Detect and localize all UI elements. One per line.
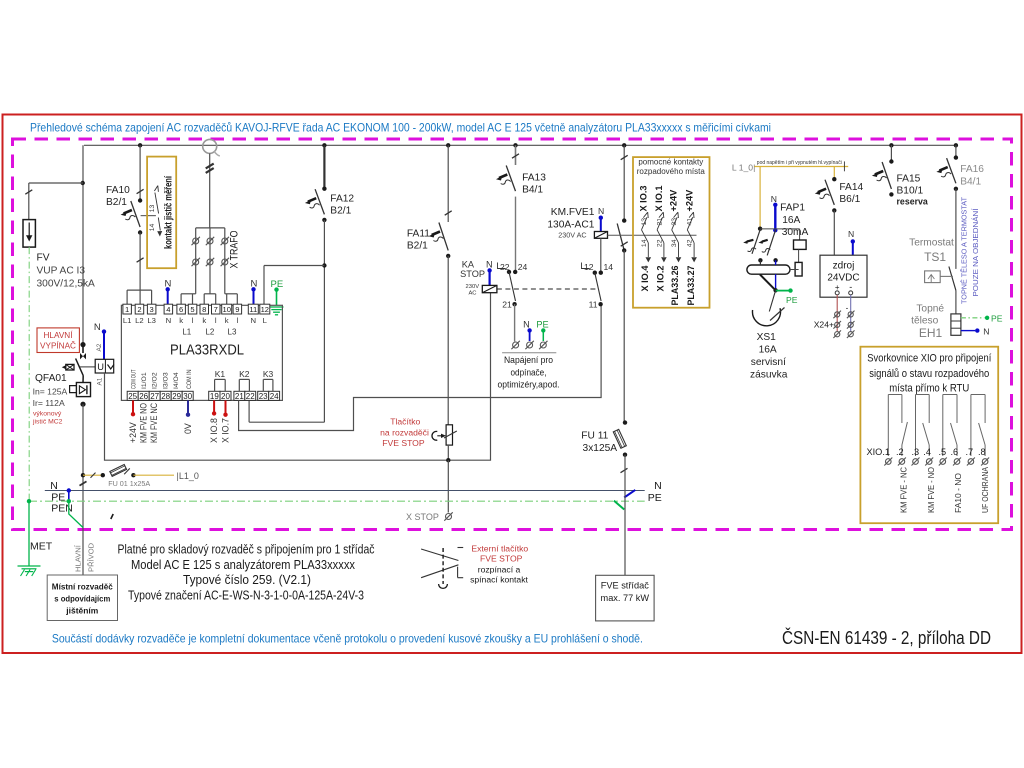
svg-text:k: k (179, 316, 183, 325)
svg-text:23: 23 (259, 392, 268, 401)
svg-text:PE: PE (991, 314, 1003, 324)
svg-text:FA10 - NO: FA10 - NO (954, 473, 963, 513)
svg-text:B6/1: B6/1 (839, 194, 860, 205)
svg-text:STOP: STOP (460, 269, 485, 279)
svg-text:Napájení pro: Napájení pro (504, 355, 553, 366)
svg-text:Externí tlačítko: Externí tlačítko (471, 543, 528, 553)
svg-text:L 1_0|: L 1_0| (732, 162, 755, 172)
svg-text:PE: PE (786, 295, 798, 305)
svg-text:.7: .7 (966, 447, 974, 457)
svg-text:K3: K3 (263, 369, 274, 379)
svg-text:B2/1: B2/1 (106, 197, 127, 208)
svg-text:X IO.2: X IO.2 (656, 266, 666, 292)
svg-text:s odpovídajícm: s odpovídajícm (54, 594, 110, 604)
svg-text:5: 5 (190, 305, 194, 314)
svg-text:FA10: FA10 (106, 185, 130, 196)
svg-text:X TRAFO: X TRAFO (229, 230, 241, 268)
svg-text:max. 77 kW: max. 77 kW (601, 593, 650, 603)
svg-text:3: 3 (150, 305, 154, 314)
svg-text:kontakt jistič měření: kontakt jistič měření (164, 175, 175, 249)
svg-text:24: 24 (270, 392, 279, 401)
svg-text:L3: L3 (147, 316, 156, 325)
svg-text:PLA33.27: PLA33.27 (686, 266, 696, 306)
svg-text:UF OCHRANA: UF OCHRANA (981, 467, 990, 513)
svg-text:PEN: PEN (51, 503, 73, 515)
svg-text:výkonový: výkonový (33, 411, 62, 418)
svg-text:A1: A1 (96, 377, 103, 385)
svg-text:L1: L1 (123, 316, 132, 325)
svg-text:11: 11 (589, 300, 598, 310)
svg-text:l: l (236, 316, 238, 325)
svg-text:X IO.8: X IO.8 (209, 418, 219, 443)
svg-text:Typové číslo 259. (V2.1): Typové číslo 259. (V2.1) (183, 573, 311, 587)
svg-text:24VDC: 24VDC (827, 273, 859, 284)
svg-text:PLA33.26: PLA33.26 (670, 266, 680, 306)
svg-text:N: N (598, 206, 604, 216)
svg-text:4: 4 (166, 305, 170, 314)
svg-text:FU 11: FU 11 (581, 431, 608, 442)
svg-text:Topné: Topné (916, 304, 944, 315)
svg-text:.4: .4 (923, 447, 931, 457)
svg-text:ČSN-EN 61439 - 2, příloha DD: ČSN-EN 61439 - 2, příloha DD (782, 627, 991, 648)
svg-text:|L1_0: |L1_0 (177, 471, 199, 481)
svg-text:FV: FV (37, 253, 50, 264)
svg-text:L1: L1 (182, 328, 191, 337)
svg-text:X IO.7: X IO.7 (221, 418, 231, 443)
svg-text:.8: .8 (978, 447, 986, 457)
svg-text:jištěním: jištěním (65, 606, 98, 616)
svg-text:41: 41 (687, 218, 694, 226)
svg-text:Typové značení AC-E-WS-N-3-1-0: Typové značení AC-E-WS-N-3-1-0-0A-125A-2… (128, 588, 364, 602)
svg-text:COM IN: COM IN (186, 369, 193, 389)
svg-text:Termostat: Termostat (909, 238, 954, 249)
svg-text:EH1: EH1 (919, 326, 943, 340)
svg-text:na rozvaděči: na rozvaděči (380, 427, 429, 437)
svg-text:16A: 16A (759, 344, 777, 355)
svg-text:X24+: X24+ (814, 320, 834, 330)
svg-text:XIO.1: XIO.1 (867, 447, 891, 457)
svg-text:.5: .5 (939, 447, 947, 457)
svg-text:Součástí dodávky rozvaděče je: Součástí dodávky rozvaděče je kompletní … (52, 633, 643, 646)
svg-text:těleso: těleso (911, 316, 939, 327)
svg-text:optimizéry,apod.: optimizéry,apod. (498, 380, 560, 391)
svg-text:FA15: FA15 (897, 174, 921, 185)
svg-text:19: 19 (210, 392, 219, 401)
svg-text:.3: .3 (912, 447, 920, 457)
svg-text:QFA01: QFA01 (35, 373, 67, 384)
svg-text:6: 6 (179, 305, 183, 314)
svg-text:FVE STOP: FVE STOP (382, 438, 425, 448)
svg-text:I2/O2: I2/O2 (151, 372, 158, 389)
svg-text:FU 01 1x25A: FU 01 1x25A (108, 479, 150, 488)
svg-text:27: 27 (150, 392, 159, 401)
svg-text:13: 13 (149, 205, 156, 213)
svg-text:PE: PE (536, 319, 548, 329)
svg-text:zdroj: zdroj (833, 260, 855, 271)
svg-text:A2: A2 (96, 343, 103, 351)
svg-text:FA16: FA16 (960, 164, 984, 175)
svg-text:L2: L2 (135, 316, 144, 325)
svg-text:odpínače,: odpínače, (511, 367, 547, 378)
svg-text:I3/O3: I3/O3 (162, 372, 169, 389)
svg-text:VUP AC I3: VUP AC I3 (37, 266, 86, 277)
svg-text:12: 12 (261, 305, 269, 314)
svg-text:N: N (486, 260, 493, 270)
svg-text:N: N (771, 194, 777, 204)
svg-text:21: 21 (502, 300, 512, 310)
svg-text:rozpadového místa: rozpadového místa (637, 167, 706, 176)
svg-text:FA12: FA12 (330, 194, 354, 205)
svg-text:X IO.4: X IO.4 (640, 265, 650, 292)
svg-text:8: 8 (202, 305, 206, 314)
svg-text:KA: KA (462, 260, 475, 270)
svg-text:14: 14 (149, 224, 156, 232)
svg-text:N: N (251, 316, 257, 325)
svg-text:20: 20 (221, 392, 230, 401)
svg-text:reserva: reserva (897, 197, 928, 207)
svg-text:PE: PE (648, 492, 662, 504)
svg-text:22: 22 (500, 262, 510, 272)
svg-text:VYPÍNAČ: VYPÍNAČ (40, 341, 76, 351)
svg-text:X IO.3: X IO.3 (639, 185, 649, 211)
svg-text:L2: L2 (205, 328, 214, 337)
svg-text:TOPNÉ TĚLESO A TERMOSTAT: TOPNÉ TĚLESO A TERMOSTAT (960, 197, 969, 304)
svg-text:k: k (202, 316, 206, 325)
svg-text:+24V: +24V (669, 189, 679, 212)
svg-text:24: 24 (518, 262, 528, 272)
svg-text:B10/1: B10/1 (897, 186, 924, 197)
svg-text:-: - (846, 304, 849, 313)
svg-text:pod napětím i při vypnutém hl.: pod napětím i při vypnutém hl.vypínači (757, 160, 842, 166)
svg-text:spínací kontakt: spínací kontakt (470, 575, 528, 585)
svg-text:rozpínací a: rozpínací a (478, 565, 521, 575)
svg-text:HLAVNÍ: HLAVNÍ (74, 544, 83, 572)
svg-text:28: 28 (161, 392, 170, 401)
svg-text:FA14: FA14 (839, 182, 863, 193)
svg-text:7: 7 (214, 305, 218, 314)
svg-text:KM.FVE1: KM.FVE1 (551, 207, 595, 218)
svg-text:33: 33 (671, 218, 678, 226)
svg-text:25: 25 (128, 392, 137, 401)
svg-text:Tlačítko: Tlačítko (390, 417, 420, 427)
svg-text:N: N (654, 480, 662, 492)
svg-text:In= 125A: In= 125A (33, 386, 68, 396)
svg-text:12: 12 (584, 262, 594, 272)
svg-text:+24V: +24V (684, 189, 694, 212)
svg-text:22: 22 (246, 392, 255, 401)
svg-text:300V/12,5kA: 300V/12,5kA (37, 279, 96, 290)
svg-text:13: 13 (641, 218, 648, 226)
svg-text:Přehledové schéma zapojení AC: Přehledové schéma zapojení AC rozvaděčů … (30, 122, 771, 135)
svg-text:l: l (215, 316, 217, 325)
svg-text:B2/1: B2/1 (330, 206, 351, 217)
svg-text:N: N (166, 316, 172, 325)
svg-text:PLA33RXDL: PLA33RXDL (170, 343, 244, 359)
svg-text:U: U (97, 362, 104, 372)
svg-text:130A-AC1: 130A-AC1 (547, 219, 594, 230)
svg-text:pomocné kontakty: pomocné kontakty (638, 158, 703, 167)
svg-text:XS1: XS1 (757, 332, 777, 343)
svg-text:FVE STOP: FVE STOP (480, 554, 523, 564)
svg-text:B2/1: B2/1 (407, 241, 428, 252)
svg-text:14: 14 (604, 262, 614, 272)
svg-text:.6: .6 (951, 447, 959, 457)
svg-text:29: 29 (172, 392, 181, 401)
svg-text:FA13: FA13 (522, 173, 546, 184)
svg-text:X STOP: X STOP (406, 512, 439, 522)
svg-text:HLAVNÍ: HLAVNÍ (44, 330, 74, 340)
svg-text:30: 30 (183, 392, 192, 401)
svg-text:2: 2 (137, 305, 141, 314)
svg-text:MET: MET (30, 541, 53, 553)
svg-text:KM FVE - NO: KM FVE - NO (927, 467, 936, 513)
svg-text:B4/1: B4/1 (960, 176, 981, 187)
svg-text:.2: .2 (896, 447, 904, 457)
svg-text:KM FVE - NC: KM FVE - NC (900, 467, 909, 513)
svg-text:B4/1: B4/1 (522, 185, 543, 196)
svg-text:I4/O4: I4/O4 (173, 372, 180, 389)
svg-text:230V AC: 230V AC (558, 231, 586, 240)
svg-text:230V: 230V (466, 284, 480, 290)
svg-text:Místní rozvaděč: Místní rozvaděč (52, 582, 113, 592)
svg-text:FA11: FA11 (407, 229, 430, 240)
svg-text:místa přímo k RTU: místa přímo k RTU (889, 382, 969, 394)
svg-text:TS1: TS1 (924, 250, 946, 264)
svg-text:26: 26 (139, 392, 148, 401)
svg-text:k: k (225, 316, 229, 325)
svg-text:11: 11 (249, 305, 257, 314)
svg-text:L3: L3 (228, 328, 237, 337)
svg-text:10: 10 (222, 305, 230, 314)
svg-text:16A: 16A (782, 215, 800, 226)
svg-text:K1: K1 (215, 369, 226, 379)
svg-text:FAP1: FAP1 (780, 203, 805, 214)
svg-text:Platné pro skladový rozvaděč s: Platné pro skladový rozvaděč s připojení… (118, 543, 375, 557)
svg-text:N: N (983, 326, 989, 336)
svg-text:COM OUT: COM OUT (130, 370, 137, 390)
svg-text:+24V: +24V (128, 422, 138, 443)
svg-text:zásuvka: zásuvka (750, 369, 788, 380)
svg-text:POUZE NA OBJEDNÁNÍ: POUZE NA OBJEDNÁNÍ (971, 208, 980, 297)
svg-text:Model AC E 125 s analyzátorem: Model AC E 125 s analyzátorem PLA33xxxxx (131, 558, 356, 572)
svg-text:9: 9 (235, 305, 239, 314)
svg-text:jistič MC2: jistič MC2 (32, 419, 63, 426)
svg-text:FVE střídač: FVE střídač (601, 580, 649, 590)
svg-text:signálů o stavu rozpadového: signálů o stavu rozpadového (869, 368, 989, 380)
svg-text:3x125A: 3x125A (583, 443, 618, 454)
svg-text:servisní: servisní (751, 357, 786, 368)
svg-text:N: N (94, 322, 101, 333)
svg-text:N: N (848, 229, 854, 239)
svg-text:KM FVE NO: KM FVE NO (139, 403, 149, 443)
svg-text:PŘÍVOD: PŘÍVOD (87, 542, 96, 572)
svg-text:AC: AC (468, 291, 476, 297)
svg-text:N: N (50, 480, 58, 492)
svg-text:l: l (192, 316, 194, 325)
svg-text:1: 1 (125, 305, 129, 314)
svg-text:N: N (523, 319, 530, 329)
svg-text:0V: 0V (183, 423, 193, 434)
svg-text:Svorkovnice XIO pro připojení: Svorkovnice XIO pro připojení (867, 352, 992, 364)
svg-text:X IO.1: X IO.1 (654, 185, 664, 211)
svg-text:21: 21 (656, 218, 663, 226)
svg-text:K2: K2 (239, 369, 250, 379)
svg-text:KM FVE NC: KM FVE NC (149, 402, 159, 443)
svg-text:Ir= 112A: Ir= 112A (33, 398, 65, 408)
svg-text:L: L (263, 316, 268, 325)
svg-text:I1/O1: I1/O1 (141, 372, 148, 389)
svg-text:21: 21 (235, 392, 244, 401)
svg-text:PE: PE (51, 491, 65, 503)
